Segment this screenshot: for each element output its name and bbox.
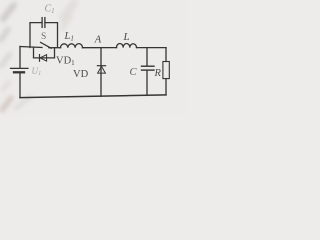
svg-text:L: L [123,31,130,43]
svg-text:VD: VD [73,69,89,80]
svg-text:A: A [94,34,102,45]
svg-text:S: S [41,32,46,42]
svg-text:C: C [130,67,138,78]
svg-text:R: R [154,68,162,79]
